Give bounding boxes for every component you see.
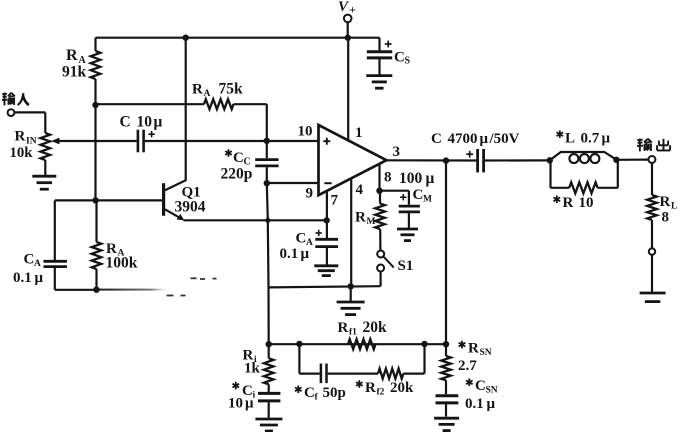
svg-text:μ: μ [301, 246, 310, 262]
svg-text:0.1: 0.1 [280, 246, 299, 262]
svg-text:75k: 75k [219, 81, 244, 98]
svg-text:C: C [233, 150, 244, 166]
svg-text:0.1: 0.1 [465, 396, 484, 412]
svg-text:10: 10 [298, 124, 313, 140]
svg-text:100: 100 [399, 170, 423, 187]
svg-text:91k: 91k [62, 64, 87, 81]
svg-text:SN: SN [486, 386, 498, 396]
svg-text:R: R [338, 320, 349, 336]
svg-text:0.1: 0.1 [13, 270, 32, 286]
svg-text:R: R [468, 341, 479, 357]
svg-text:A: A [34, 259, 41, 269]
svg-text:C: C [475, 378, 486, 394]
svg-text:1k: 1k [244, 361, 261, 377]
svg-text:220p: 220p [221, 166, 253, 183]
svg-text:9: 9 [306, 186, 314, 202]
svg-text:4: 4 [356, 182, 364, 198]
svg-text:C: C [296, 231, 307, 247]
svg-text:10k: 10k [10, 145, 34, 161]
svg-text:S1: S1 [398, 258, 414, 274]
svg-text:μ: μ [487, 396, 496, 412]
svg-text:8: 8 [662, 210, 670, 226]
svg-text:0.7: 0.7 [581, 131, 600, 147]
svg-text:7: 7 [331, 193, 339, 209]
svg-text:C: C [120, 114, 131, 131]
svg-text:μ: μ [480, 131, 489, 147]
svg-text:10: 10 [137, 114, 153, 131]
svg-text:R: R [365, 380, 376, 396]
svg-text:R: R [563, 195, 574, 211]
svg-text:2.7: 2.7 [458, 358, 477, 374]
svg-text:10: 10 [228, 396, 243, 412]
svg-text:R: R [66, 47, 78, 64]
svg-text:20k: 20k [363, 319, 388, 336]
svg-text:M: M [423, 195, 432, 205]
svg-text:SN: SN [480, 348, 492, 358]
svg-text:100k: 100k [106, 255, 138, 272]
svg-text:50p: 50p [323, 385, 346, 401]
svg-text:R: R [355, 210, 366, 226]
svg-text:3: 3 [393, 144, 401, 160]
svg-text:R: R [660, 194, 671, 210]
svg-text:+: + [349, 3, 356, 17]
svg-text:f2: f2 [377, 388, 385, 398]
svg-text:R: R [192, 82, 203, 98]
svg-text:S: S [405, 56, 411, 67]
svg-text:R: R [15, 129, 26, 145]
svg-text:A: A [204, 89, 211, 99]
svg-text:8: 8 [384, 170, 392, 186]
svg-text:/50V: /50V [489, 131, 520, 147]
svg-text:f1: f1 [349, 328, 357, 338]
svg-text:μ: μ [245, 396, 254, 412]
svg-text:20k: 20k [390, 380, 414, 396]
svg-text:1: 1 [355, 125, 363, 141]
svg-text:μ: μ [35, 270, 44, 286]
svg-text:C: C [431, 131, 442, 147]
svg-text:μ: μ [426, 170, 435, 187]
svg-text:μ: μ [154, 114, 163, 131]
svg-text:C: C [413, 187, 424, 203]
svg-text:μ: μ [602, 131, 611, 147]
svg-text:C: C [394, 50, 405, 66]
svg-text:4700: 4700 [448, 131, 478, 147]
svg-text:M: M [367, 217, 376, 227]
svg-text:L: L [671, 202, 677, 212]
svg-text:3904: 3904 [175, 199, 206, 216]
svg-text:10: 10 [579, 195, 594, 211]
svg-text:C: C [24, 252, 35, 268]
svg-text:C: C [304, 385, 315, 401]
svg-text:L: L [565, 131, 575, 147]
